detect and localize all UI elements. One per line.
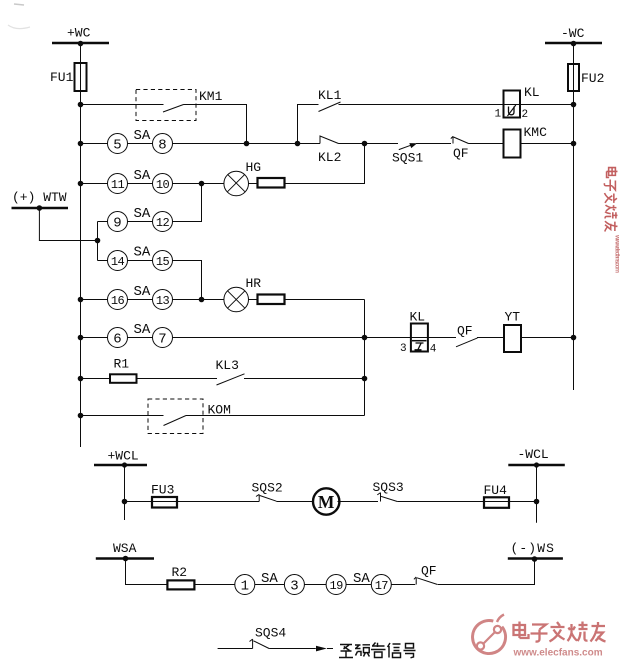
junction right bus KMC row <box>571 141 577 147</box>
wire HR dropper vertical <box>364 300 366 416</box>
svg-text:(-)WS: (-)WS <box>511 541 556 556</box>
junction KM1 drop <box>244 141 250 147</box>
wire between 5 and 8 <box>128 143 153 145</box>
junction left bus row HG <box>78 181 84 187</box>
wire 15 dropper to HR row <box>173 261 202 300</box>
wire +WCL to FU3 <box>125 501 178 503</box>
wire 7 to KL coil 3-4 <box>173 337 429 339</box>
wire FU3 to SQS2 <box>177 501 259 503</box>
svg-text:R2: R2 <box>172 565 188 580</box>
svg-text:KL2: KL2 <box>318 150 341 165</box>
wire KL1 riser <box>298 105 319 144</box>
wire between 11 and 10 <box>128 183 153 185</box>
svg-text:SA: SA <box>134 245 151 261</box>
svg-text:19: 19 <box>329 579 343 593</box>
wire KL coil to right bus <box>520 104 574 106</box>
terminal 3 <box>284 575 304 595</box>
svg-text:6: 6 <box>113 332 121 348</box>
wire QF to KMC <box>469 143 504 145</box>
svg-text:KM1: KM1 <box>199 89 223 104</box>
wire KL3 to dropper <box>244 378 365 380</box>
svg-text:HG: HG <box>246 160 262 175</box>
svg-text:FU1: FU1 <box>50 70 74 85</box>
contact SQS1 <box>392 143 423 165</box>
arrow to annunciator <box>316 646 333 652</box>
terminal 9 <box>108 212 128 232</box>
svg-text:SQS4: SQS4 <box>255 626 286 641</box>
node (-)WS <box>508 541 563 559</box>
junction branch 12 riser <box>199 181 205 187</box>
wire left bus +WC vertical <box>80 43 82 447</box>
wire 10 to lamp HG <box>173 183 225 185</box>
scan smudge top-left <box>14 4 24 5</box>
motor M <box>313 488 339 514</box>
terminal 10 <box>153 174 173 194</box>
svg-text:10: 10 <box>156 178 170 192</box>
junction left bus row R1 <box>78 376 84 382</box>
wire SQS4 to arrow <box>269 648 316 650</box>
wire between 3 and 19 <box>304 584 326 586</box>
svg-text:1: 1 <box>495 109 502 121</box>
junction HR dropper row R1 <box>362 376 368 382</box>
lamp HG <box>224 160 261 196</box>
svg-text:12: 12 <box>156 216 170 230</box>
svg-text:FU2: FU2 <box>581 71 604 86</box>
terminal 13 <box>153 290 173 310</box>
junction HG branch top <box>362 141 368 147</box>
svg-text:SA: SA <box>134 284 151 300</box>
wire row HR from left bus <box>81 299 108 301</box>
svg-text:7: 7 <box>158 332 166 348</box>
terminal 19 <box>326 575 346 595</box>
svg-text:14: 14 <box>111 255 125 269</box>
terminal 14 <box>108 251 128 271</box>
wire KL1 to KL coil <box>339 104 521 106</box>
wire bracket to 14 <box>98 260 108 262</box>
wire row 5-8 from left bus <box>81 143 108 145</box>
watermark vertical 电子发烧友 <box>604 168 617 232</box>
wire KL2 to SQS1 <box>339 143 399 145</box>
junction +WCL tap <box>122 499 128 505</box>
wire KM1 row from left bus <box>81 104 164 106</box>
wire KMC to right bus <box>521 143 574 145</box>
junction left bus row HR <box>78 297 84 303</box>
terminal 15 <box>153 251 173 271</box>
wire bracket to 9 <box>98 221 108 223</box>
svg-text:www.elecfans.com: www.elecfans.com <box>614 234 620 273</box>
svg-text:QF: QF <box>457 324 473 339</box>
svg-text:5: 5 <box>113 138 121 154</box>
fuse FU4 <box>484 483 510 508</box>
resistor R1 <box>110 357 137 383</box>
wire WSA down and to R2 <box>126 559 168 585</box>
wire HR resistor to dropper <box>285 299 365 301</box>
svg-text:8: 8 <box>158 138 166 154</box>
svg-text:SQS1: SQS1 <box>392 151 423 166</box>
lamp HR <box>224 276 261 312</box>
node +WC <box>52 26 109 44</box>
wire R2 to 1 <box>194 584 234 586</box>
coil YT <box>504 310 521 353</box>
resistor after HR <box>258 295 285 305</box>
junction -WCL bar <box>534 462 539 467</box>
terminal 7 <box>153 328 173 348</box>
svg-text:4: 4 <box>430 344 437 356</box>
svg-text:QF: QF <box>421 564 437 579</box>
wire YT to right bus <box>521 337 574 339</box>
contact KOM (dashed box) <box>148 399 231 434</box>
svg-text:11: 11 <box>111 178 125 192</box>
wire bracket vertical 9/14 <box>97 222 99 261</box>
wire KL 3-4 to QF <box>428 337 456 339</box>
node WSA <box>96 541 154 559</box>
terminal 8 <box>153 134 173 154</box>
svg-text:KL: KL <box>524 85 540 100</box>
svg-text:SQS2: SQS2 <box>252 481 283 496</box>
terminal 6 <box>108 328 128 348</box>
junction left bus KM1 row <box>78 102 84 108</box>
svg-text:+WCL: +WCL <box>108 449 139 464</box>
svg-text:15: 15 <box>156 255 170 269</box>
terminal 17 <box>371 575 391 595</box>
terminal 12 <box>153 212 173 232</box>
svg-text:KL1: KL1 <box>318 88 342 103</box>
wire between 19 and 17 <box>346 584 371 586</box>
node (+) WTW <box>12 190 69 208</box>
relay coil KL (pins 3-4) <box>400 310 437 356</box>
svg-text:3: 3 <box>400 343 407 355</box>
wire between 16 and 13 <box>128 299 153 301</box>
wire between 14 and 15 <box>128 260 153 262</box>
wire row R1 from left bus <box>81 378 111 380</box>
junction WSA bar <box>123 556 129 562</box>
svg-text:(+) WTW: (+) WTW <box>12 190 67 205</box>
junction right bus row YT <box>571 335 577 341</box>
wire between 6 and 7 <box>128 337 153 339</box>
contact KL2 <box>318 136 341 165</box>
svg-text:2: 2 <box>522 109 529 121</box>
wire QF to YT <box>477 337 504 339</box>
wire row 6-7 from left bus <box>81 337 108 339</box>
svg-text:13: 13 <box>156 294 170 308</box>
svg-text:SA: SA <box>134 168 151 184</box>
fuse FU2 <box>568 64 604 91</box>
svg-text:FU3: FU3 <box>151 483 174 498</box>
svg-text:16: 16 <box>111 294 125 308</box>
svg-text:KMC: KMC <box>524 125 548 140</box>
wire FU4 to -WCL <box>509 501 537 503</box>
watermark logo elecfans <box>473 615 506 654</box>
junction +WCL bar <box>122 462 127 467</box>
junction branch 15 dropper <box>199 297 205 303</box>
svg-text:M: M <box>318 492 335 512</box>
node +WCL <box>94 449 147 466</box>
svg-text:-WCL: -WCL <box>518 447 549 462</box>
svg-text:9: 9 <box>113 216 121 232</box>
svg-text:WSA: WSA <box>113 541 137 556</box>
junction KL1 riser <box>295 141 301 147</box>
wire between 9 and 12 <box>128 221 153 223</box>
contact QF (signal row) <box>414 564 438 585</box>
contact KM1 (dashed box) <box>136 89 223 121</box>
label 至预告信号 (to annunciator signal) <box>339 643 416 658</box>
junction left bus at +WC bar <box>78 41 84 47</box>
wire row HG from left bus <box>81 183 108 185</box>
wire SQS1 to QF <box>416 143 451 145</box>
svg-text:KL: KL <box>410 310 426 325</box>
svg-text:-WC: -WC <box>561 26 585 41</box>
wire HG resistor to riser <box>285 144 365 184</box>
wire between 1 and 3 <box>255 584 285 586</box>
wire 12 riser to HG row <box>173 184 202 222</box>
junction -WCL tap <box>534 499 540 505</box>
svg-text:QF: QF <box>453 146 469 161</box>
wire -WCL vertical <box>536 465 538 523</box>
node -WCL <box>508 447 565 465</box>
junction bracket <box>95 238 101 244</box>
svg-text:SA: SA <box>134 128 151 144</box>
watermark text 电子发烧友 <box>514 622 606 642</box>
junction right bus at -WC bar <box>571 41 577 47</box>
fuse FU1 <box>50 63 87 91</box>
terminal 11 <box>108 174 128 194</box>
wire KOM to HR dropper <box>186 415 365 417</box>
svg-text:HR: HR <box>246 276 262 291</box>
svg-text:17: 17 <box>375 579 389 593</box>
junction right bus KL row <box>571 102 577 108</box>
contactor coil KMC <box>504 125 548 158</box>
contact KL1 <box>318 88 342 112</box>
wire 13 to lamp HR <box>173 299 225 301</box>
contact SQS2 <box>252 481 283 502</box>
wire R1 to KL3 <box>137 378 218 380</box>
wire WTW to bracket <box>39 208 97 241</box>
wire right bus -WC vertical <box>573 43 575 390</box>
svg-text:YT: YT <box>505 310 521 325</box>
contact KL3 <box>216 358 245 385</box>
resistor R2 <box>167 565 194 589</box>
terminal 5 <box>108 134 128 154</box>
wire HR lamp to resistor <box>249 299 258 301</box>
wire SQS4 left lead <box>218 648 253 650</box>
svg-text:R1: R1 <box>114 357 130 372</box>
terminal 1 <box>235 575 255 595</box>
junction WTW bar <box>37 205 43 211</box>
contact SQS4 <box>250 626 287 649</box>
node -WC <box>545 26 602 43</box>
wire 8 to KL2 <box>173 143 321 145</box>
svg-text:+WC: +WC <box>67 26 91 41</box>
wire HG lamp to resistor <box>249 183 258 185</box>
svg-text:1: 1 <box>241 579 249 595</box>
wire row KOM from left bus <box>81 415 164 417</box>
wire KM1 to drop <box>184 105 247 144</box>
contact QF <box>451 136 469 161</box>
contact SQS3 <box>373 480 404 502</box>
wire +WCL vertical <box>124 465 126 520</box>
svg-text:SA: SA <box>134 206 151 222</box>
junction left bus row 5-8 <box>78 141 84 147</box>
junction -WS bar <box>532 556 538 562</box>
junction left bus row KOM <box>78 413 84 419</box>
svg-text:SQS3: SQS3 <box>373 480 404 495</box>
svg-text:FU4: FU4 <box>484 483 508 498</box>
fuse FU3 <box>151 483 177 508</box>
svg-text:KL3: KL3 <box>216 358 239 373</box>
junction left bus row 6-7 <box>78 335 84 341</box>
terminal 16 <box>108 290 128 310</box>
svg-text:www.elecfans.com: www.elecfans.com <box>513 648 603 659</box>
wire QF to -WS <box>438 559 535 585</box>
resistor after HG <box>258 178 285 188</box>
relay coil KL (pins 1-2) <box>495 85 540 121</box>
wire SQS3 to FU4 <box>397 501 509 503</box>
contact QF (trip row) <box>456 324 478 347</box>
wire 17 to QF <box>391 584 415 586</box>
wire M to SQS3 <box>338 501 379 503</box>
wire SQS2 to motor M <box>276 501 312 503</box>
junction HR dropper row 6-7 <box>362 335 368 341</box>
svg-text:SA: SA <box>134 322 151 338</box>
svg-text:3: 3 <box>290 579 298 595</box>
